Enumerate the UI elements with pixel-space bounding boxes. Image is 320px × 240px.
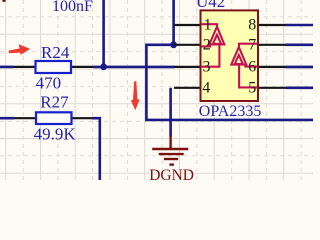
red arrow right <box>9 44 31 54</box>
grid solid lines <box>0 0 313 180</box>
wire corner to pin2 <box>146 45 313 120</box>
red arrow down <box>131 81 140 110</box>
ground bar 2 <box>159 153 184 155</box>
op-amp U42 pin 3 stub <box>174 66 201 68</box>
svg-text:100nF: 100nF <box>52 0 93 15</box>
op-amp U42 pin 5 stub <box>258 87 286 89</box>
svg-text:2: 2 <box>203 37 211 54</box>
resistor R27 body <box>36 112 72 124</box>
op-amp B inverting input line <box>245 65 257 67</box>
wire R24 to pin3 (main horizontal) <box>93 66 175 69</box>
svg-text:6: 6 <box>248 58 256 75</box>
wire right of pin5 <box>286 87 314 90</box>
svg-text:7: 7 <box>248 37 256 54</box>
wire vertical from top to junction A <box>102 0 105 67</box>
wire right of pin8 <box>286 24 314 27</box>
op-amp B inner triangle <box>235 55 243 64</box>
svg-text:U42: U42 <box>196 0 225 11</box>
wire left of R27 <box>0 117 14 120</box>
op-amp A non-inverting input line <box>201 44 219 66</box>
op-amp B triangle <box>231 47 246 65</box>
op-amp A output line <box>201 24 217 27</box>
wire right of pin6 <box>286 66 314 69</box>
svg-text:1: 1 <box>204 17 212 34</box>
svg-text:OPA2335: OPA2335 <box>199 103 262 120</box>
op-amp B non-inverting input line <box>239 65 258 88</box>
ground bar 4 <box>169 163 174 165</box>
junction dot B <box>170 41 177 48</box>
svg-text:DGND: DGND <box>149 167 194 180</box>
wire right of pin7 <box>286 43 314 46</box>
wire pin4 down to ground net <box>169 88 172 137</box>
wire left of R24 <box>0 66 14 69</box>
op-amp U42 pin 1 stub <box>174 24 201 26</box>
svg-text:5: 5 <box>248 79 256 96</box>
svg-text:R27: R27 <box>40 93 69 112</box>
ground stem <box>169 136 171 149</box>
op-amp U42 pin 4 stub <box>174 87 201 89</box>
svg-text:R24: R24 <box>41 43 70 62</box>
op-amp A triangle <box>209 27 224 45</box>
svg-text:49.9K: 49.9K <box>34 125 77 144</box>
resistor R24 pins <box>14 66 94 68</box>
resistor R24 body <box>36 61 72 73</box>
junction dot A <box>100 64 107 71</box>
ground bar 1 <box>152 148 188 150</box>
grid dashed lines <box>0 0 313 180</box>
wire right of R27 down <box>92 118 100 180</box>
wire vertical from top to junction B <box>172 0 175 45</box>
op-amp A inner triangle <box>213 35 221 44</box>
svg-text:470: 470 <box>36 73 62 92</box>
op-amp U42 body <box>201 10 259 101</box>
op-amp U42 pin 8 stub <box>258 24 286 26</box>
op-amp B output line <box>239 44 258 47</box>
op-amp U42 pin 2 stub <box>174 44 201 46</box>
op-amp A inverting input line <box>201 44 210 46</box>
ground bar 3 <box>164 158 178 160</box>
red blob top-left corner <box>2 0 5 2</box>
svg-text:4: 4 <box>202 79 210 96</box>
svg-text:8: 8 <box>248 17 256 34</box>
op-amp U42 pin 6 stub <box>258 66 286 68</box>
svg-text:3: 3 <box>203 58 211 75</box>
op-amp U42 pin 7 stub <box>258 44 286 46</box>
resistor R27 pins <box>14 117 92 119</box>
